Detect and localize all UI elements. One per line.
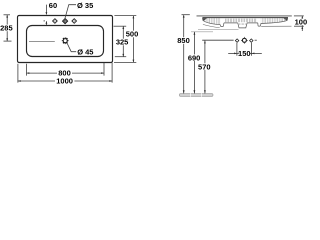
hole diamond left (front): [235, 39, 238, 42]
svg-text:100: 100: [295, 17, 308, 26]
dimension 100 (right): [294, 16, 304, 31]
drain symbol (circle with radial ticks): [62, 37, 69, 44]
svg-text:570: 570: [198, 62, 211, 71]
dimension 850 (height to rim): [182, 15, 190, 94]
svg-text:690: 690: [188, 53, 201, 62]
faucet hole diamond left: [53, 19, 58, 24]
dimension 150: [228, 43, 262, 56]
svg-text:150: 150: [238, 49, 251, 58]
drain boss: [238, 23, 247, 28]
hole circle middle Ø35 (front): [241, 37, 248, 44]
inner basin rounded rect: [27, 26, 104, 57]
dimension 690: [193, 32, 195, 94]
svg-text:325: 325: [116, 38, 129, 47]
dimension 1000 (bottom outer): [18, 63, 112, 83]
drain centerline: [29, 40, 55, 42]
dimension 570: [204, 41, 206, 94]
basin section: left hatched wedge: [203, 18, 221, 28]
faucet holes centerline (front view): [202, 39, 257, 41]
basin section: comb band (teeth): [225, 19, 255, 23]
basin section: mid underside line: [224, 22, 258, 24]
rim top line (extends to 100-dim): [197, 15, 292, 17]
dimension 500 (right outer): [114, 16, 136, 63]
label Ø 45 with leader: [67, 43, 76, 52]
svg-text:Ø 35: Ø 35: [77, 1, 93, 10]
right mounting lug: [258, 23, 261, 26]
dimension 800 (bottom inner): [27, 63, 105, 76]
label Ø 35 with leader: [65, 5, 76, 20]
faucet hole diamond middle (main): [63, 19, 68, 24]
svg-text:850: 850: [177, 36, 190, 45]
svg-text:Ø 45: Ø 45: [77, 48, 93, 57]
floor slab: [179, 93, 213, 96]
svg-text:60: 60: [49, 1, 57, 10]
rim front edge line: [202, 17, 288, 19]
gray underside line (under basin): [198, 28, 239, 30]
outer rect of washbasin: [18, 16, 113, 63]
dimension 285 (left): [4, 15, 12, 41]
faucet hole diamond right: [72, 19, 77, 24]
svg-text:1000: 1000: [56, 76, 73, 85]
dimension 60 (top): [44, 5, 47, 25]
hole diamond right (front): [250, 39, 253, 42]
left mounting lug: [220, 23, 224, 27]
basin section: right hatched wedge: [261, 18, 292, 26]
svg-text:285: 285: [0, 24, 13, 33]
dimension 325 (right inner): [114, 26, 127, 57]
gray underside line (siphon rear, 690 reference): [191, 31, 213, 33]
svg-text:500: 500: [126, 30, 139, 39]
